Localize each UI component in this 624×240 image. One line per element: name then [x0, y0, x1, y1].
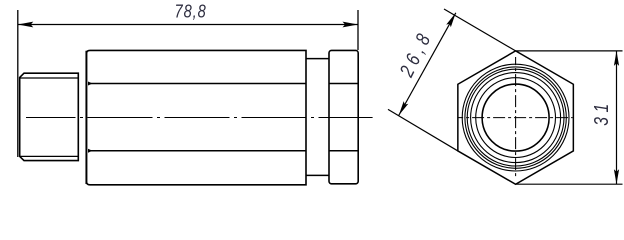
- arrowhead top of 31: [614, 51, 619, 66]
- dimension 78,8 extension line right: [357, 10, 359, 50]
- dimension line 31: [616, 51, 618, 184]
- arrowhead bottom of 31: [614, 169, 619, 184]
- thread minor diameter line top: [21, 77, 79, 79]
- dimension line 26,8: [399, 13, 456, 116]
- groove top edge: [306, 58, 329, 60]
- svg-text:31: 31: [590, 99, 612, 126]
- fillet wedge at hex line bottom left: [88, 149, 93, 153]
- hexagon front view: [458, 51, 573, 184]
- circle r50.3: [465, 67, 566, 168]
- arrowhead right of 78,8: [343, 22, 359, 28]
- dimension 31 extension line bottom: [516, 183, 623, 185]
- arrowhead left of 78,8: [18, 22, 34, 28]
- front view horizontal centerline: [459, 117, 573, 119]
- groove bottom edge: [306, 174, 329, 176]
- nut outline side view: [329, 50, 358, 183]
- dimension 26,8 extension line upper: [444, 9, 516, 51]
- thread plug outline: [20, 73, 79, 160]
- circle r39.8: [476, 78, 556, 158]
- arrowhead lower of 26,8: [399, 101, 409, 115]
- dimension line 78,8: [18, 24, 358, 26]
- svg-text:78,8: 78,8: [175, 1, 207, 22]
- body left face line: [85, 51, 87, 184]
- circle r43: [471, 73, 561, 163]
- arrowhead upper of 26,8: [446, 13, 456, 27]
- centerline axis of side view: [26, 117, 373, 119]
- front view vertical centerline: [515, 57, 517, 178]
- circle r54: [462, 64, 569, 171]
- circle r46.8: [467, 69, 564, 166]
- fillet wedge at hex line top left: [88, 82, 93, 86]
- dimension 78,8 extension line left: [17, 10, 19, 157]
- main hex body outline: [86, 50, 306, 184]
- circle r33.4 inner: [482, 84, 549, 151]
- dimension 31 extension line top: [516, 50, 623, 52]
- dimension 26,8 extension line lower: [388, 109, 458, 151]
- nut hex corner line bottom: [329, 150, 358, 152]
- thread minor diameter line bottom: [21, 155, 79, 157]
- nut hex corner line top: [329, 83, 358, 85]
- hex corner line top of body: [89, 83, 306, 85]
- hex corner line bottom of body: [89, 150, 306, 152]
